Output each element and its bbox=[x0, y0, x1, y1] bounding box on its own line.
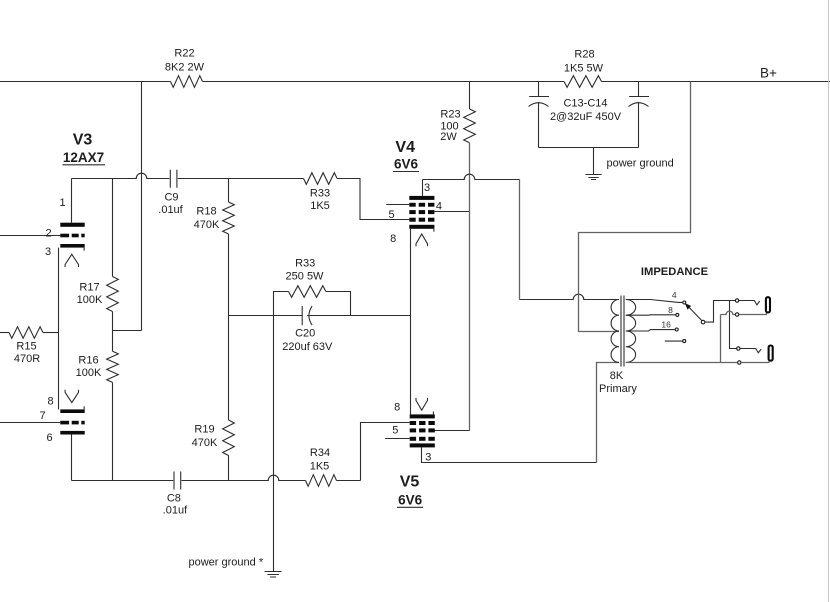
svg-text:3: 3 bbox=[45, 246, 51, 258]
svg-text:R28: R28 bbox=[574, 49, 594, 61]
V5 grid3 row bbox=[410, 437, 416, 441]
svg-text:IMPEDANCE: IMPEDANCE bbox=[641, 266, 709, 278]
svg-text:C9: C9 bbox=[164, 192, 178, 204]
V4 heater bbox=[416, 234, 428, 246]
wire: V5 pin 4 lead bbox=[434, 430, 469, 432]
svg-text:5: 5 bbox=[388, 209, 394, 221]
wire: V4 plate to OPT bbox=[423, 174, 520, 179]
ground (power ground *) bbox=[265, 572, 282, 578]
resistor R34 bbox=[306, 475, 337, 487]
resistor R22 bbox=[171, 76, 203, 88]
secondary tap 16 bbox=[626, 330, 675, 331]
jack J1 tip terminal bbox=[735, 299, 738, 302]
wire: upper grid-drive node bbox=[72, 173, 170, 178]
svg-text:8: 8 bbox=[394, 402, 400, 414]
V5 grid row (pin 5) bbox=[410, 421, 416, 425]
wire: lower grid-drive node bbox=[72, 480, 174, 482]
V3 lower plate (pin 6) bbox=[60, 431, 84, 435]
svg-text:R15: R15 bbox=[16, 341, 36, 353]
svg-text:R19: R19 bbox=[194, 424, 214, 436]
svg-text:8: 8 bbox=[390, 233, 396, 245]
V4 grid row (pin 5) bbox=[409, 218, 415, 222]
wire: V5 plate to OPT bbox=[422, 447, 597, 462]
svg-text:R34: R34 bbox=[310, 447, 330, 459]
svg-text:R23: R23 bbox=[440, 109, 460, 121]
V3 upper grid (pin 2) bbox=[60, 234, 69, 238]
V3 lower cathode (pin 8) bbox=[60, 409, 84, 413]
secondary common bbox=[626, 362, 738, 364]
svg-text:2W: 2W bbox=[440, 131, 457, 143]
resistor R33 1K5 bbox=[304, 173, 338, 185]
resistor R16 bbox=[107, 351, 119, 382]
V3 pin 1 (plate lead) bbox=[71, 179, 73, 223]
capacitor C8 bbox=[174, 472, 181, 490]
svg-text:8K: 8K bbox=[610, 370, 624, 382]
jack J2 tip terminal bbox=[737, 347, 740, 350]
svg-text:470K: 470K bbox=[192, 437, 218, 449]
wire to V4 grid bbox=[337, 179, 409, 220]
svg-text:100K: 100K bbox=[76, 367, 102, 379]
V3 upper plate bbox=[60, 223, 84, 227]
svg-text:R33: R33 bbox=[295, 258, 315, 270]
wire: cathode tail bbox=[58, 248, 60, 410]
V5 heater bbox=[416, 398, 428, 410]
wire: screen supply bbox=[469, 143, 471, 431]
unused tap bbox=[665, 340, 682, 342]
svg-text:R18: R18 bbox=[196, 206, 216, 218]
svg-text:1K5: 1K5 bbox=[310, 461, 330, 473]
svg-text:7: 7 bbox=[39, 410, 45, 422]
svg-text:C13-C14: C13-C14 bbox=[563, 98, 607, 110]
V5 cathode (pin 8) bbox=[410, 414, 435, 418]
V3 lower heater bbox=[65, 390, 78, 403]
resistor R18 bbox=[228, 179, 230, 203]
svg-text:470R: 470R bbox=[14, 353, 40, 365]
ground (power ground) bbox=[593, 148, 595, 175]
svg-text:B+: B+ bbox=[760, 66, 777, 81]
impedance switch bbox=[701, 320, 705, 324]
V4 plate bbox=[409, 196, 434, 200]
V5 plate (pin 3) bbox=[410, 443, 435, 447]
wire: bias node bbox=[229, 315, 303, 317]
wire bbox=[178, 178, 304, 180]
capacitor C14 bbox=[638, 82, 640, 97]
wire: cathode join bbox=[410, 229, 412, 415]
svg-text:250 5W: 250 5W bbox=[286, 271, 325, 283]
B+ rail bbox=[0, 81, 171, 83]
svg-text:.01uf: .01uf bbox=[158, 204, 183, 216]
secondary tap 4 bbox=[626, 300, 683, 303]
capacitor C9 bbox=[170, 170, 177, 188]
resistor R17 bbox=[112, 179, 114, 277]
V3 lower grid (pin 7) bbox=[60, 421, 69, 425]
wire: switch to jacks bbox=[705, 301, 735, 323]
V4 screen row (pin 4) bbox=[409, 210, 415, 214]
jack J1 body bbox=[766, 297, 770, 312]
wire to cathodes bbox=[307, 315, 410, 317]
V5 screen row (pin 4) bbox=[410, 428, 416, 432]
secondary tap 8 bbox=[626, 314, 676, 316]
svg-text:470K: 470K bbox=[194, 219, 220, 231]
V4 grid3 row bbox=[409, 203, 415, 207]
svg-text:16: 16 bbox=[661, 320, 671, 330]
resistor R19 bbox=[223, 420, 235, 456]
svg-text:1K5 5W: 1K5 5W bbox=[564, 63, 604, 75]
svg-text:2@32uF 450V: 2@32uF 450V bbox=[550, 111, 622, 123]
svg-text:5: 5 bbox=[392, 425, 398, 437]
transformer T1 secondary bbox=[626, 300, 636, 363]
svg-text:6V6: 6V6 bbox=[394, 157, 419, 172]
svg-text:8K2 2W: 8K2 2W bbox=[165, 62, 205, 74]
svg-text:6: 6 bbox=[46, 432, 52, 444]
svg-text:C8: C8 bbox=[167, 493, 181, 505]
svg-text:R22: R22 bbox=[174, 48, 194, 60]
svg-text:4: 4 bbox=[436, 201, 442, 213]
svg-text:power ground: power ground bbox=[607, 158, 674, 170]
svg-text:4: 4 bbox=[672, 290, 677, 300]
V3 upper heater bbox=[65, 254, 78, 267]
wire: tip join bbox=[730, 301, 737, 349]
svg-text:V3: V3 bbox=[73, 132, 93, 149]
svg-text:C20: C20 bbox=[295, 328, 315, 340]
switch arrow bbox=[685, 303, 691, 310]
svg-text:2: 2 bbox=[45, 228, 51, 240]
V4 pin 3 plate lead bbox=[422, 180, 424, 196]
svg-text:V5: V5 bbox=[400, 474, 420, 491]
resistor R15 bbox=[0, 332, 9, 334]
V4 cathode (pin 8) bbox=[409, 225, 434, 229]
svg-text:8: 8 bbox=[668, 305, 673, 315]
svg-text:3: 3 bbox=[424, 182, 430, 194]
wire: supply drop to V3 plate loads bbox=[113, 82, 142, 331]
svg-text:.01uf: .01uf bbox=[163, 505, 188, 517]
svg-text:12AX7: 12AX7 bbox=[63, 150, 104, 165]
svg-text:R33: R33 bbox=[310, 188, 330, 200]
svg-text:Primary: Primary bbox=[599, 383, 637, 395]
svg-text:R17: R17 bbox=[79, 282, 99, 294]
svg-text:100K: 100K bbox=[77, 294, 103, 306]
svg-text:V4: V4 bbox=[395, 139, 415, 156]
svg-text:1K5: 1K5 bbox=[310, 200, 330, 212]
svg-text:R16: R16 bbox=[78, 355, 98, 367]
wire: V3 lower plate lead bbox=[71, 435, 73, 481]
svg-text:1: 1 bbox=[59, 197, 65, 209]
wire bbox=[182, 475, 306, 480]
svg-text:220uf 63V: 220uf 63V bbox=[282, 341, 333, 353]
svg-text:power ground *: power ground * bbox=[189, 557, 264, 569]
resistor R23 bbox=[469, 82, 471, 109]
transformer T1 primary bbox=[611, 300, 619, 363]
svg-text:3: 3 bbox=[425, 451, 431, 463]
capacitor C20 bbox=[301, 306, 303, 325]
jack J1 sleeve terminal bbox=[735, 313, 738, 316]
wire to V5 grid bbox=[337, 423, 410, 481]
resistor R33 250 5W (cathode) bbox=[274, 292, 289, 316]
V3 upper cathode (pin 3) bbox=[60, 244, 84, 248]
jack J2 sleeve terminal bbox=[738, 361, 741, 364]
svg-text:6V6: 6V6 bbox=[398, 493, 423, 508]
screen border edge bbox=[828, 0, 830, 602]
resistor R28 bbox=[564, 76, 602, 88]
wire bbox=[539, 147, 639, 149]
jack J2 body bbox=[769, 346, 773, 361]
capacitor C13 bbox=[538, 82, 540, 97]
wire: ground drop bbox=[273, 316, 275, 572]
svg-text:8: 8 bbox=[47, 396, 53, 408]
transformer core bbox=[621, 296, 624, 367]
wire: B+ to OPT centre tap bbox=[579, 82, 691, 332]
